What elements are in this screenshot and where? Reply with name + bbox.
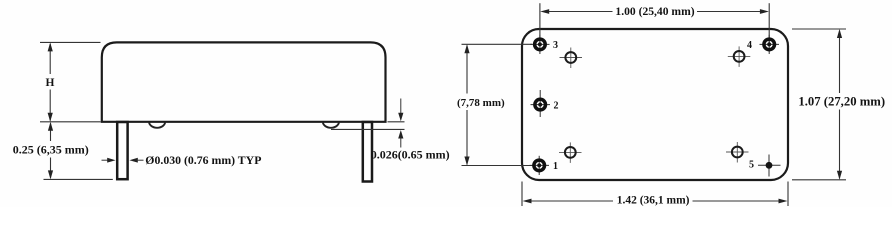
pad 1 ring [534, 160, 545, 171]
svg-text:5: 5 [749, 159, 754, 170]
arrow above (0.026 dimension) [400, 99, 402, 115]
extension line pad3 up (1.00 dimension) [539, 3, 541, 44]
hole near pad 3 [565, 52, 576, 63]
pad 1 crosshair [530, 164, 550, 166]
dimension line 1.00 (25,40 mm) [548, 11, 613, 13]
svg-text:1: 1 [553, 161, 558, 172]
extension line pin bottom (0.25 dimension) [44, 178, 113, 180]
extension line pad4 up (1.00 dimension) [768, 3, 770, 44]
hole near pad 4 crosshair [728, 55, 751, 57]
pad 4 center dot [767, 42, 771, 46]
extension line pad3 left ((7,78 mm) dimension) [462, 43, 533, 45]
pin 5 crosshair [758, 164, 781, 166]
svg-text:H: H [46, 77, 55, 89]
hole near pad 1 crosshair [559, 151, 582, 153]
extension line bump seating plane (0.026 dimension) [331, 128, 405, 130]
extension line body bottom left (1.42 dimension) [521, 182, 523, 207]
hole near pad 3 crosshair [560, 57, 583, 59]
standoff bump right (side view) [323, 122, 339, 128]
standoff bump left (side view) [149, 122, 165, 128]
svg-text:3: 3 [553, 40, 558, 51]
pad 2 crosshair [531, 104, 551, 106]
svg-text:1.07 (27,20 mm): 1.07 (27,20 mm) [798, 95, 885, 109]
package body outline (side view) [102, 42, 386, 121]
hole near pad 1 [565, 147, 576, 158]
hole near pin 5 [732, 147, 743, 158]
arrow left of pin (lead diameter callout) [102, 159, 110, 161]
svg-text:1.00 (25,40 mm): 1.00 (25,40 mm) [615, 5, 694, 18]
dimension line H [49, 44, 51, 74]
extension line body bottom right (0.026 dimension) [388, 121, 405, 123]
dimension line (7,78 mm) [466, 46, 468, 94]
pad 1 center dot [537, 163, 541, 167]
svg-text:0.026(0.65 mm): 0.026(0.65 mm) [371, 147, 450, 161]
dimension line 0.25 (6,35 mm) [50, 123, 52, 141]
pad 4 ring [764, 39, 775, 50]
pad 3 center dot [538, 42, 542, 46]
svg-text:Ø0.030 (0.76 mm) TYP: Ø0.030 (0.76 mm) TYP [145, 153, 261, 167]
svg-text:(7,78 mm): (7,78 mm) [457, 97, 505, 109]
svg-text:2: 2 [554, 100, 559, 111]
dimension line 1.07 (27,20 mm) [839, 31, 841, 94]
arrow right of pin (lead diameter callout) [129, 158, 137, 163]
hole near pin 5 crosshair [726, 151, 749, 153]
extension line body bottom right (1.42 dimension) [787, 182, 789, 207]
pin left lead (side view) [117, 122, 127, 179]
extension line pad1 left ((7,78 mm) dimension) [462, 165, 535, 167]
extension line body bottom right (1.07 dimension) [792, 179, 846, 181]
svg-text:1.42 (36,1 mm): 1.42 (36,1 mm) [617, 194, 690, 206]
extension line body top right (1.07 dimension) [792, 28, 846, 30]
svg-text:4: 4 [747, 40, 752, 51]
pad 4 crosshair [760, 43, 780, 45]
package body outline (bottom view) [522, 29, 788, 180]
pad 2 center dot [538, 103, 542, 107]
pin right lead (side view) [363, 122, 372, 182]
arrow below (0.026 dimension) [398, 130, 403, 139]
pad 3 ring [535, 39, 546, 50]
dimension line 1.42 (36,1 mm) [530, 200, 614, 202]
extension line bottom of body (H / 0.25 dimension) [40, 121, 101, 123]
hole near pad 4 [734, 51, 745, 62]
pad 3 crosshair [530, 43, 549, 45]
svg-text:0.25 (6,35 mm): 0.25 (6,35 mm) [13, 143, 89, 157]
pin 5 dot [766, 162, 773, 169]
pad 2 ring [535, 99, 546, 110]
extension line top (H dimension) [40, 41, 101, 43]
